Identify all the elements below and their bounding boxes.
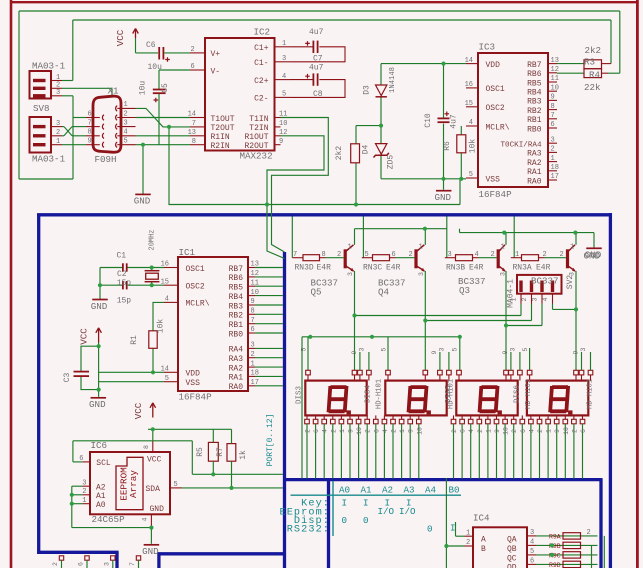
svg-text:13: 13 <box>251 261 259 269</box>
svg-text:10: 10 <box>503 427 510 435</box>
svg-text:RA2: RA2 <box>229 364 244 373</box>
svg-text:B0: B0 <box>449 484 460 495</box>
svg-text:V-: V- <box>211 67 221 76</box>
svg-text:2k2: 2k2 <box>585 45 602 56</box>
svg-text:16: 16 <box>465 81 473 89</box>
svg-text:2: 2 <box>56 129 60 137</box>
svg-text:5: 5 <box>522 347 529 351</box>
svg-text:6: 6 <box>460 429 467 433</box>
svg-text:2: 2 <box>551 146 555 154</box>
svg-text:1: 1 <box>546 429 553 433</box>
svg-text:C2+: C2+ <box>254 77 269 86</box>
svg-text:RB6: RB6 <box>527 70 542 79</box>
svg-text:RA1: RA1 <box>527 168 542 177</box>
svg-text:7: 7 <box>88 119 92 127</box>
svg-text:GND: GND <box>134 196 151 207</box>
svg-text:RB5: RB5 <box>229 284 244 293</box>
svg-text:3: 3 <box>532 297 539 301</box>
svg-text:2: 2 <box>305 429 312 433</box>
svg-text:1k: 1k <box>239 450 248 460</box>
svg-text:9: 9 <box>351 350 358 354</box>
svg-text:2: 2 <box>587 529 591 537</box>
svg-text:1: 1 <box>56 138 60 146</box>
svg-text:15: 15 <box>465 100 473 108</box>
svg-text:1: 1 <box>339 429 346 433</box>
svg-text:C5: C5 <box>161 83 170 93</box>
svg-text:VCC: VCC <box>79 328 90 345</box>
svg-text:4: 4 <box>469 119 473 127</box>
svg-text:17: 17 <box>251 379 259 387</box>
svg-text:C6: C6 <box>146 41 156 50</box>
svg-text:11: 11 <box>551 75 559 83</box>
svg-text:RS232:: RS232: <box>287 525 330 536</box>
svg-text:2: 2 <box>391 429 398 433</box>
svg-text:R7: R7 <box>216 447 225 457</box>
svg-text:7: 7 <box>251 317 255 325</box>
svg-text:C3: C3 <box>63 373 72 383</box>
svg-text:2: 2 <box>451 429 458 433</box>
svg-text:I: I <box>450 523 456 534</box>
svg-text:IC6: IC6 <box>91 440 108 451</box>
svg-text:OSC2: OSC2 <box>486 104 505 113</box>
svg-text:10: 10 <box>416 427 423 435</box>
svg-text:4u7: 4u7 <box>450 114 459 129</box>
svg-text:9: 9 <box>494 429 501 433</box>
svg-text:3: 3 <box>530 529 534 537</box>
svg-text:RN3A: RN3A <box>513 263 532 272</box>
svg-text:4u7: 4u7 <box>309 28 324 37</box>
svg-text:6: 6 <box>78 562 85 566</box>
svg-text:RA3: RA3 <box>527 150 542 159</box>
svg-text:VDD: VDD <box>486 61 501 70</box>
svg-text:R2OUT: R2OUT <box>244 142 268 151</box>
svg-text:4: 4 <box>528 429 535 433</box>
svg-text:2: 2 <box>571 429 578 433</box>
svg-text:16F84P: 16F84P <box>179 392 213 403</box>
svg-text:IC4: IC4 <box>473 513 490 524</box>
svg-text:4: 4 <box>142 517 149 521</box>
svg-text:9: 9 <box>348 429 355 433</box>
svg-text:8: 8 <box>88 129 92 137</box>
svg-text:GND: GND <box>142 546 159 557</box>
svg-text:T1OUT: T1OUT <box>211 115 235 124</box>
svg-text:R9D: R9D <box>549 562 561 568</box>
svg-text:1: 1 <box>485 429 492 433</box>
svg-text:3: 3 <box>56 120 60 128</box>
svg-text:RB2: RB2 <box>229 312 244 321</box>
svg-text:6: 6 <box>392 251 396 259</box>
svg-text:HD-H101: HD-H101 <box>525 379 533 409</box>
svg-text:8: 8 <box>143 445 150 449</box>
svg-text:RA0: RA0 <box>527 177 542 186</box>
svg-text:5: 5 <box>301 347 308 351</box>
svg-text:SCL: SCL <box>96 459 111 468</box>
svg-text:RN3D: RN3D <box>295 263 314 272</box>
svg-text:5: 5 <box>452 347 459 351</box>
svg-text:2: 2 <box>560 251 564 259</box>
svg-text:MAX232: MAX232 <box>240 151 273 162</box>
svg-text:DIS3: DIS3 <box>296 386 304 405</box>
svg-text:ZD5: ZD5 <box>387 155 396 170</box>
svg-text:C1: C1 <box>117 252 127 261</box>
svg-text:24C65P: 24C65P <box>92 514 126 525</box>
svg-text:GND: GND <box>434 192 451 203</box>
svg-text:OSC1: OSC1 <box>186 265 205 274</box>
svg-text:R9A: R9A <box>549 533 561 540</box>
svg-text:RB3: RB3 <box>527 98 542 107</box>
svg-text:QB: QB <box>507 545 517 554</box>
svg-text:2: 2 <box>251 351 255 359</box>
svg-text:14: 14 <box>188 111 196 119</box>
svg-text:QC: QC <box>507 555 517 564</box>
svg-text:RB2: RB2 <box>527 107 542 116</box>
svg-text:1: 1 <box>419 243 423 251</box>
svg-text:RN3C: RN3C <box>363 263 382 272</box>
svg-text:8: 8 <box>192 138 196 146</box>
svg-text:17: 17 <box>551 173 559 181</box>
svg-text:2: 2 <box>330 429 337 433</box>
svg-text:6: 6 <box>530 557 534 565</box>
svg-text:A3: A3 <box>404 484 415 495</box>
svg-text:1: 1 <box>282 40 286 48</box>
svg-text:RA4: RA4 <box>229 346 244 355</box>
svg-text:3: 3 <box>580 347 587 351</box>
svg-text:R2IN: R2IN <box>211 142 230 151</box>
svg-text:IC1: IC1 <box>179 247 196 258</box>
svg-text:2: 2 <box>82 488 86 496</box>
svg-text:3: 3 <box>439 347 446 351</box>
svg-text:RB0: RB0 <box>229 330 244 339</box>
svg-text:VCC: VCC <box>133 402 144 419</box>
svg-text:4: 4 <box>282 73 286 81</box>
svg-text:2: 2 <box>52 562 59 566</box>
svg-text:6: 6 <box>191 63 195 71</box>
svg-text:5: 5 <box>124 138 128 146</box>
svg-text:11: 11 <box>279 111 287 119</box>
svg-text:9: 9 <box>572 350 579 354</box>
svg-text:9: 9 <box>279 138 283 146</box>
svg-text:2: 2 <box>365 429 372 433</box>
svg-text:4: 4 <box>468 429 475 433</box>
svg-text:4u7: 4u7 <box>309 64 324 73</box>
svg-text:OSC2: OSC2 <box>186 283 205 292</box>
svg-text:BC337: BC337 <box>531 276 559 287</box>
svg-text:1: 1 <box>251 360 255 368</box>
svg-text:I: I <box>342 497 348 508</box>
svg-text:2k2: 2k2 <box>335 146 344 161</box>
svg-text:R1OUT: R1OUT <box>244 133 268 142</box>
svg-text:1: 1 <box>399 429 406 433</box>
svg-text:8: 8 <box>322 251 326 259</box>
svg-text:A: A <box>481 536 486 545</box>
svg-text:18: 18 <box>251 370 259 378</box>
svg-text:OSC1: OSC1 <box>486 85 505 94</box>
svg-text:RB3: RB3 <box>229 302 244 311</box>
svg-text:1: 1 <box>124 101 128 109</box>
svg-text:12: 12 <box>251 270 259 278</box>
svg-text:E4R: E4R <box>386 263 401 272</box>
svg-text:I: I <box>363 497 369 508</box>
svg-text:2: 2 <box>537 429 544 433</box>
svg-text:2: 2 <box>491 251 495 259</box>
svg-text:B: B <box>481 545 486 554</box>
svg-text:15p: 15p <box>117 297 132 306</box>
svg-text:Q4: Q4 <box>378 287 390 298</box>
svg-text:DIS6: DIS6 <box>513 385 521 404</box>
svg-text:Q3: Q3 <box>459 285 470 296</box>
svg-text:D4: D4 <box>362 145 371 155</box>
svg-text:R1IN: R1IN <box>211 133 230 142</box>
svg-text:R6: R6 <box>443 141 452 151</box>
svg-text:7: 7 <box>551 112 555 120</box>
svg-text:1: 1 <box>551 155 555 163</box>
svg-text:VSS: VSS <box>486 175 501 184</box>
svg-text:3: 3 <box>569 272 576 276</box>
svg-text:SDA: SDA <box>146 485 161 494</box>
svg-text:MA03-1: MA03-1 <box>32 61 66 72</box>
svg-text:MCLR\: MCLR\ <box>186 300 210 309</box>
svg-text:13: 13 <box>188 129 196 137</box>
svg-text:10u: 10u <box>139 81 148 96</box>
svg-text:A0: A0 <box>339 484 350 495</box>
svg-text:PORT[0..12]: PORT[0..12] <box>266 414 275 467</box>
svg-text:3: 3 <box>510 347 517 351</box>
svg-text:11: 11 <box>251 279 259 287</box>
svg-text:RA0: RA0 <box>229 383 244 392</box>
svg-text:4: 4 <box>530 538 534 546</box>
svg-text:A2: A2 <box>382 484 393 495</box>
svg-text:5: 5 <box>469 171 473 179</box>
svg-text:6: 6 <box>551 121 555 129</box>
svg-text:10: 10 <box>551 84 559 92</box>
svg-text:0: 0 <box>342 515 348 526</box>
svg-text:3: 3 <box>347 272 354 276</box>
svg-text:RA1: RA1 <box>229 374 244 383</box>
svg-text:C7: C7 <box>313 55 323 64</box>
svg-text:RA2: RA2 <box>527 159 542 168</box>
svg-text:1: 1 <box>515 251 519 259</box>
svg-text:12: 12 <box>551 66 559 74</box>
svg-text:3: 3 <box>124 119 128 127</box>
svg-text:RN3B: RN3B <box>446 263 465 272</box>
svg-text:DIS4: DIS4 <box>365 385 373 404</box>
svg-text:T2IN: T2IN <box>249 124 268 133</box>
svg-text:6: 6 <box>313 429 320 433</box>
svg-text:A4: A4 <box>425 484 437 495</box>
svg-text:4: 4 <box>382 429 389 433</box>
svg-text:1: 1 <box>511 297 518 301</box>
svg-text:5: 5 <box>174 481 178 489</box>
svg-text:2: 2 <box>466 539 470 547</box>
svg-text:16: 16 <box>161 261 169 269</box>
svg-text:2: 2 <box>409 251 413 259</box>
svg-text:7: 7 <box>293 251 297 259</box>
svg-text:F09H: F09H <box>95 154 117 165</box>
svg-text:10k: 10k <box>157 319 166 334</box>
svg-text:2: 2 <box>543 251 547 259</box>
svg-text:9: 9 <box>251 298 255 306</box>
svg-text:RB1: RB1 <box>229 321 244 330</box>
svg-text:C1+: C1+ <box>254 44 269 53</box>
svg-text:15p: 15p <box>117 279 132 288</box>
svg-text:GND: GND <box>150 505 165 514</box>
svg-text:5: 5 <box>530 548 534 556</box>
svg-text:1: 1 <box>56 74 60 82</box>
svg-text:A1: A1 <box>96 492 106 501</box>
svg-text:9: 9 <box>408 429 415 433</box>
svg-text:5: 5 <box>365 251 369 259</box>
svg-text:10u: 10u <box>148 63 163 72</box>
svg-text:10: 10 <box>563 427 570 435</box>
svg-text:I/O: I/O <box>399 506 416 517</box>
svg-text:0: 0 <box>363 515 369 526</box>
svg-text:4: 4 <box>322 429 329 433</box>
svg-text:9: 9 <box>88 138 92 146</box>
svg-text:2: 2 <box>521 297 528 301</box>
svg-text:2: 2 <box>124 110 128 118</box>
svg-text:16F84P: 16F84P <box>479 189 513 200</box>
svg-text:E4R: E4R <box>469 263 484 272</box>
svg-text:VCC: VCC <box>115 29 126 46</box>
svg-text:T0CKI/RA4: T0CKI/RA4 <box>500 142 541 150</box>
svg-text:1: 1 <box>466 529 470 537</box>
svg-text:VCC: VCC <box>147 456 162 465</box>
svg-text:4: 4 <box>475 251 479 259</box>
svg-text:C2: C2 <box>117 270 127 279</box>
svg-text:10: 10 <box>356 427 363 435</box>
svg-text:4: 4 <box>124 129 128 137</box>
svg-text:RB7: RB7 <box>229 265 244 274</box>
svg-text:E4R: E4R <box>317 263 332 272</box>
svg-text:3: 3 <box>282 55 286 63</box>
svg-text:10: 10 <box>279 120 287 128</box>
svg-text:6: 6 <box>520 429 527 433</box>
svg-text:5: 5 <box>165 375 169 383</box>
svg-text:5: 5 <box>381 347 388 351</box>
svg-text:9: 9 <box>431 350 438 354</box>
svg-text:A0: A0 <box>96 501 106 510</box>
svg-text:QD: QD <box>507 564 517 568</box>
svg-text:1: 1 <box>570 243 574 251</box>
svg-text:2: 2 <box>337 251 341 259</box>
svg-text:7: 7 <box>192 120 196 128</box>
svg-text:V+: V+ <box>211 50 221 59</box>
svg-text:0: 0 <box>427 524 433 535</box>
svg-text:MA03-1: MA03-1 <box>32 154 66 165</box>
svg-text:RB4: RB4 <box>527 89 542 98</box>
svg-text:2: 2 <box>477 429 484 433</box>
svg-text:12: 12 <box>279 129 287 137</box>
svg-text:13: 13 <box>551 57 559 65</box>
svg-text:RB5: RB5 <box>527 79 542 88</box>
svg-text:5: 5 <box>282 91 286 99</box>
svg-text:6: 6 <box>373 429 380 433</box>
svg-text:1N4148: 1N4148 <box>389 67 397 93</box>
svg-text:10k: 10k <box>469 139 478 154</box>
svg-text:RA3: RA3 <box>229 355 244 364</box>
svg-text:HD-H101: HD-H101 <box>587 379 595 409</box>
svg-text:4: 4 <box>165 296 169 304</box>
svg-text:14: 14 <box>161 366 169 374</box>
svg-text:10: 10 <box>251 289 259 297</box>
svg-text:R5: R5 <box>196 447 205 457</box>
svg-text:3: 3 <box>551 136 555 144</box>
svg-text:RB7: RB7 <box>527 61 542 70</box>
svg-text:9: 9 <box>551 94 555 102</box>
svg-text:T2OUT: T2OUT <box>211 124 235 133</box>
svg-text:3: 3 <box>448 251 452 259</box>
svg-text:3: 3 <box>103 562 110 566</box>
svg-text:GND: GND <box>91 301 108 312</box>
svg-text:6: 6 <box>580 429 587 433</box>
svg-text:3: 3 <box>359 347 366 351</box>
svg-text:3: 3 <box>500 272 507 276</box>
svg-text:15: 15 <box>161 278 169 286</box>
svg-text:9: 9 <box>502 350 509 354</box>
svg-text:7: 7 <box>129 562 136 566</box>
svg-text:IC3: IC3 <box>479 42 496 53</box>
svg-text:6: 6 <box>88 110 92 118</box>
svg-text:HD-H101: HD-H101 <box>448 379 456 409</box>
svg-text:X1: X1 <box>108 86 120 97</box>
svg-text:Array: Array <box>128 470 139 498</box>
svg-text:E4R: E4R <box>536 263 551 272</box>
svg-text:6: 6 <box>251 326 255 334</box>
svg-text:RB1: RB1 <box>527 116 542 125</box>
svg-text:20MHz: 20MHz <box>149 229 157 250</box>
svg-text:Q5: Q5 <box>311 287 322 298</box>
svg-text:1: 1 <box>82 497 86 505</box>
svg-text:C8: C8 <box>313 90 323 99</box>
svg-text:3: 3 <box>251 342 255 350</box>
svg-text:D3: D3 <box>363 85 372 95</box>
svg-text:1: 1 <box>501 243 505 251</box>
svg-text:14: 14 <box>465 57 473 65</box>
svg-text:3: 3 <box>418 272 425 276</box>
svg-text:C10: C10 <box>424 113 433 128</box>
svg-text:8: 8 <box>551 103 555 111</box>
svg-text:R3: R3 <box>584 57 595 68</box>
svg-text:MCLR\: MCLR\ <box>486 123 510 132</box>
svg-text:RB0: RB0 <box>527 125 542 134</box>
svg-text:SV8: SV8 <box>33 103 50 114</box>
svg-text:C1-: C1- <box>254 59 268 68</box>
svg-text:1: 1 <box>348 243 352 251</box>
svg-text:R4: R4 <box>589 70 601 81</box>
svg-text:GND: GND <box>584 251 601 262</box>
svg-text:2: 2 <box>511 429 518 433</box>
svg-text:C2-: C2- <box>254 95 268 104</box>
svg-text:MA04-1: MA04-1 <box>507 279 516 308</box>
svg-text:22k: 22k <box>584 82 601 93</box>
svg-text:T1IN: T1IN <box>249 115 268 124</box>
svg-text:18: 18 <box>551 164 559 172</box>
svg-text:2: 2 <box>191 46 195 54</box>
svg-text:VDD: VDD <box>186 370 201 379</box>
svg-text:QA: QA <box>507 536 517 545</box>
svg-text:4: 4 <box>542 297 549 301</box>
svg-text:GND: GND <box>89 399 106 410</box>
svg-text:VSS: VSS <box>186 379 201 388</box>
svg-text:8: 8 <box>251 308 255 316</box>
svg-text:R1: R1 <box>130 335 139 345</box>
svg-text:RB6: RB6 <box>229 274 244 283</box>
svg-text:I/O: I/O <box>378 506 395 517</box>
svg-text:9: 9 <box>554 429 561 433</box>
svg-text:RB4: RB4 <box>229 293 244 302</box>
svg-text:IC2: IC2 <box>254 27 271 38</box>
svg-text:3: 3 <box>56 89 60 97</box>
